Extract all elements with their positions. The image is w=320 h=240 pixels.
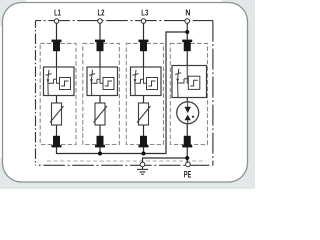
varistor L1: [50, 103, 64, 125]
terminal L3: [141, 19, 146, 24]
svg-text:L3: L3: [141, 8, 148, 18]
disconnector L3 bottom: [139, 136, 149, 148]
svg-text:L1: L1: [54, 8, 61, 18]
disconnector L1 bottom: [52, 136, 62, 148]
terminal N: [185, 19, 190, 24]
white top margin strip: [26, 0, 222, 2]
terminal L1: [54, 19, 59, 24]
junction node N top: [185, 30, 189, 34]
spark gap L2: [87, 67, 118, 96]
junction node PE: [185, 156, 189, 160]
disconnector N top: [182, 40, 192, 52]
terminal earth: [140, 162, 145, 167]
disconnector L2 bottom: [95, 136, 105, 148]
gray outer margin around rounded photo frame: [0, 0, 255, 189]
white left margin strip: [0, 26, 2, 158]
spark gap N-PE trigger box: [172, 66, 207, 98]
spark gap L3: [131, 67, 162, 96]
wire L3 column: [143, 23, 145, 153]
varistor L2: [94, 103, 108, 125]
wire N column: [186, 23, 188, 162]
device boundary (dash-dot border): [36, 21, 213, 166]
page background: [0, 0, 255, 189]
svg-text:N: N: [185, 8, 190, 18]
disconnector N bottom: [182, 136, 192, 148]
gas discharge tube N-PE: [177, 102, 199, 124]
module box L2 (gray dashed): [83, 43, 120, 144]
svg-text:PE: PE: [184, 169, 192, 179]
module box L1 (gray dashed): [40, 43, 76, 144]
PE tie wire with earth stem: [143, 158, 188, 162]
photo frame rounded border: [3, 3, 248, 183]
junction node L2 bus: [98, 152, 102, 156]
ground: [137, 167, 148, 174]
junction node L3 bus: [142, 152, 146, 156]
disconnector L2 top: [95, 40, 105, 52]
optional PE conductor (gray dashed line): [47, 160, 206, 162]
terminal PE: [186, 162, 191, 167]
wire L1 column: [57, 23, 188, 153]
disconnector L3 top: [139, 40, 149, 52]
spark gap L1: [44, 67, 75, 96]
wire L2 column: [99, 23, 101, 153]
svg-text:L2: L2: [98, 8, 105, 18]
disconnector L1 top: [52, 40, 62, 52]
varistor L3: [137, 103, 151, 125]
module box N-PE (gray dashed): [170, 43, 207, 144]
terminal L2: [98, 19, 103, 24]
module box L3 (gray dashed): [126, 43, 163, 144]
